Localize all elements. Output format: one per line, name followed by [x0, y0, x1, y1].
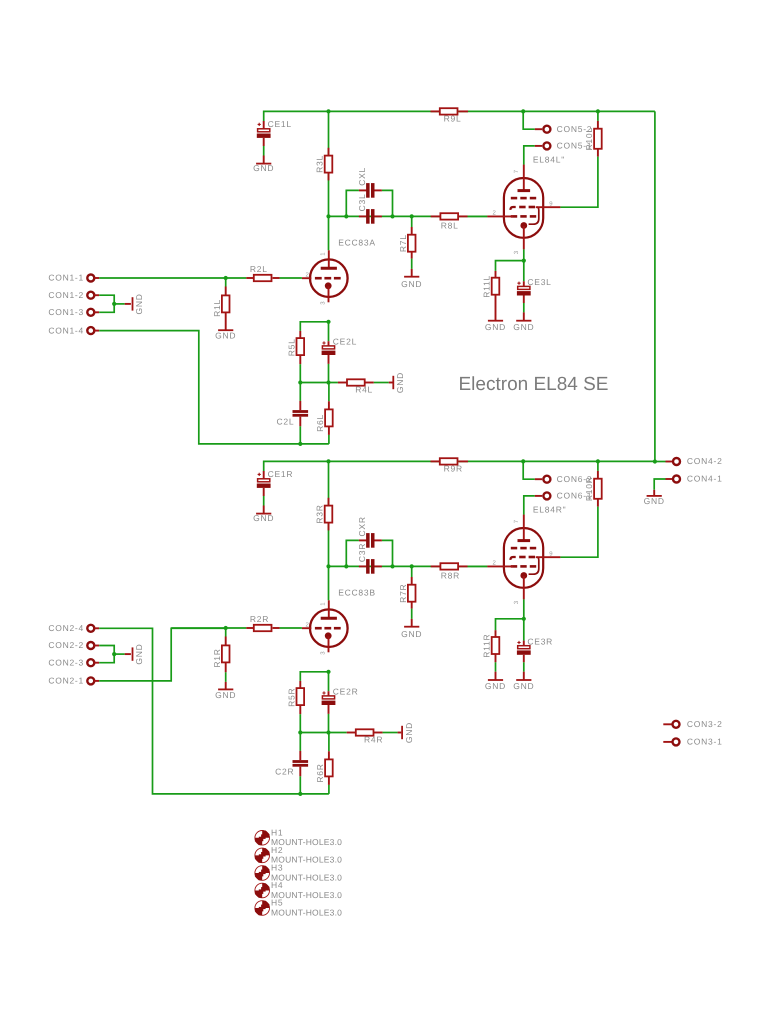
connector CON5-1	[543, 141, 592, 151]
svg-text:CE3L: CE3L	[527, 277, 551, 287]
connector CON2-1	[48, 676, 99, 686]
svg-text:R4L: R4L	[355, 385, 373, 395]
resistor R2L	[246, 264, 279, 281]
resistor R5R	[286, 681, 304, 733]
junction cap-loop-left L	[344, 214, 348, 218]
svg-text:2: 2	[492, 209, 496, 216]
junction cathode R	[326, 670, 330, 674]
connector CON6-1	[543, 491, 592, 501]
triode ECC83A	[302, 238, 376, 303]
svg-text:R4R: R4R	[364, 735, 383, 745]
svg-text:R1R: R1R	[212, 648, 222, 667]
svg-text:2: 2	[305, 272, 309, 279]
capacitor CE2L	[322, 322, 357, 383]
svg-text:R3R: R3R	[314, 504, 324, 523]
svg-text:2: 2	[305, 622, 309, 629]
wire CON6-2	[523, 461, 542, 479]
svg-text:CE1R: CE1R	[268, 469, 294, 479]
resistor R4R	[347, 729, 398, 744]
capacitor CE2R	[322, 672, 359, 733]
connector CON4-2	[666, 456, 723, 466]
svg-text:GND: GND	[401, 279, 422, 289]
svg-text:CON4-1: CON4-1	[687, 474, 723, 484]
ground CE3R-GND	[513, 680, 534, 691]
junction CON1-gnd	[112, 302, 116, 306]
svg-text:CE3R: CE3R	[527, 636, 553, 646]
junction R5-row L	[298, 380, 302, 384]
wire grid row R	[171, 627, 302, 629]
wire CXR loop	[346, 540, 392, 566]
svg-text:GND: GND	[253, 163, 274, 173]
svg-text:GND: GND	[401, 629, 422, 639]
svg-text:R8R: R8R	[441, 571, 460, 581]
pin 2 EL84L	[492, 209, 496, 216]
svg-text:GND: GND	[485, 322, 506, 332]
resistor R1R	[212, 628, 230, 689]
connector CON5-2	[543, 124, 592, 134]
wire pin9 R	[560, 507, 598, 558]
svg-text:GND: GND	[513, 322, 534, 332]
junction cap-loop-right R	[390, 564, 394, 568]
wire CON2-1 to grid	[99, 628, 226, 681]
wire cathode bottom row R	[300, 732, 346, 734]
capacitor CE3L	[517, 261, 552, 321]
wire CON2-4 to cathode bottom	[99, 628, 329, 794]
svg-text:7: 7	[513, 519, 520, 523]
svg-text:CON4-2: CON4-2	[687, 456, 723, 466]
wire anode column L	[328, 111, 330, 250]
wire CXL loop	[346, 190, 392, 216]
svg-text:GND: GND	[215, 331, 236, 341]
resistor R2R	[246, 614, 279, 631]
ground CE1R-GND	[253, 513, 274, 523]
wire cathode branch L	[300, 322, 328, 331]
svg-text:7: 7	[513, 169, 520, 173]
ground R4R-GND	[398, 722, 414, 743]
svg-text:3: 3	[513, 250, 520, 254]
wire CON5-2	[523, 111, 542, 129]
junction rail-R3R	[326, 459, 330, 463]
resistor R3L	[314, 148, 332, 181]
svg-text:R6L: R6L	[315, 414, 325, 432]
capacitor CE1R	[257, 469, 293, 514]
svg-text:C2L: C2L	[277, 417, 295, 427]
connector CON2-3	[48, 657, 99, 667]
resistor R9L	[431, 108, 469, 123]
svg-text:H5: H5	[271, 898, 283, 908]
mount hole H1	[255, 828, 342, 848]
connector CON1-1	[48, 273, 99, 283]
svg-text:R5R: R5R	[286, 688, 296, 707]
svg-text:R9L: R9L	[444, 114, 462, 124]
wire CON1-2/3 gnd	[99, 295, 125, 312]
svg-text:R10L: R10L	[584, 127, 594, 150]
wire grid row L	[99, 277, 302, 279]
wire B+ rail R	[264, 461, 655, 471]
pentode EL84R	[487, 504, 566, 599]
junction pentode-cathode R	[522, 617, 526, 621]
ground CON2-GND	[125, 644, 144, 665]
resistor R9R	[431, 458, 469, 473]
resistor R10R	[584, 461, 602, 506]
pin 3 EL84L	[513, 250, 520, 254]
ground CON4-GND	[644, 490, 665, 506]
svg-text:R3L: R3L	[314, 155, 324, 173]
ground R7R-GND	[401, 627, 422, 640]
connector CON3-2	[663, 719, 722, 729]
connector CON2-2	[48, 640, 99, 650]
junction anode-R3R	[326, 564, 330, 568]
connector CON1-4	[48, 325, 99, 335]
svg-text:R2R: R2R	[250, 614, 269, 624]
pin 1 ECC83A	[320, 252, 327, 256]
svg-text:R10R: R10R	[584, 476, 594, 501]
junction cap-loop-right L	[390, 214, 394, 218]
svg-text:9: 9	[549, 200, 553, 207]
wire cathode bottom row L	[300, 382, 338, 384]
svg-text:CON2-2: CON2-2	[48, 640, 84, 650]
svg-text:CXL: CXL	[357, 167, 367, 186]
junction cathode L	[326, 320, 330, 324]
capacitor CXL	[357, 167, 382, 198]
svg-text:GND: GND	[215, 690, 236, 700]
svg-text:R1L: R1L	[212, 299, 222, 317]
connector CON4-1	[666, 474, 723, 484]
svg-text:ECC83A: ECC83A	[338, 238, 376, 248]
capacitor CE3R	[517, 619, 553, 680]
svg-text:MOUNT-HOLE3.0: MOUNT-HOLE3.0	[271, 907, 342, 917]
svg-text:3: 3	[320, 651, 327, 655]
svg-text:H4: H4	[271, 880, 283, 890]
junction CON2-gnd	[112, 652, 116, 656]
junction C2L-bottom	[298, 442, 302, 446]
junction R5-row R	[298, 730, 302, 734]
svg-text:GND: GND	[644, 496, 665, 506]
resistor R8L	[431, 213, 488, 230]
connector CON3-1	[663, 737, 722, 747]
ground R1R-GND	[215, 689, 236, 699]
triode ECC83B	[302, 588, 376, 653]
junction rail-R3L	[326, 109, 330, 113]
junction rail-CON4	[653, 459, 657, 463]
resistor R7L	[398, 216, 416, 276]
capacitor C2L	[277, 383, 309, 444]
svg-text:H2: H2	[271, 845, 283, 855]
resistor R8R	[431, 563, 488, 580]
capacitor C2R	[275, 733, 308, 794]
pin 3 ECC83B	[320, 651, 327, 655]
wire right rail	[654, 111, 656, 461]
svg-text:GND: GND	[253, 513, 274, 523]
capacitor C3L	[357, 194, 382, 224]
mount hole H5	[255, 898, 342, 918]
connector CON6-2	[543, 474, 592, 484]
connector CON1-2	[48, 290, 99, 300]
resistor R6L	[315, 383, 333, 444]
svg-text:CE2L: CE2L	[333, 337, 357, 347]
pin 7 EL84L	[513, 169, 520, 173]
mount hole H3	[255, 863, 342, 883]
svg-text:CON1-2: CON1-2	[48, 290, 84, 300]
wire rail to CON4-2	[655, 461, 666, 463]
svg-text:C3L: C3L	[357, 194, 367, 212]
ground CON1-GND	[125, 293, 144, 314]
mount hole H2	[255, 845, 342, 865]
wire anode row L	[329, 215, 488, 217]
svg-text:GND: GND	[134, 644, 144, 665]
svg-text:CON3-2: CON3-2	[687, 719, 723, 729]
junction anode-R3L	[326, 214, 330, 218]
junction cap-loop-left R	[344, 564, 348, 568]
svg-text:CON3-1: CON3-1	[687, 737, 723, 747]
junction rail-CON6	[521, 459, 525, 463]
resistor R3R	[314, 498, 332, 531]
junction C2R-bottom	[298, 792, 302, 796]
svg-text:R9R: R9R	[444, 464, 463, 474]
svg-text:H3: H3	[271, 863, 283, 873]
svg-text:2: 2	[492, 559, 496, 566]
ground R1L-GND	[215, 330, 236, 340]
junction anode-R7R	[410, 564, 414, 568]
wire pin9 L	[560, 157, 598, 208]
pin 7 EL84R	[513, 519, 520, 523]
svg-text:1: 1	[320, 252, 327, 256]
svg-text:3: 3	[320, 301, 327, 305]
resistor R11L	[482, 261, 524, 321]
pin 2 ECC83A	[305, 272, 309, 279]
connector CON1-3	[48, 307, 99, 317]
wire CON4-1 gnd	[654, 479, 665, 490]
resistor R4L	[338, 379, 389, 394]
ground R11R-GND	[485, 680, 506, 691]
svg-text:EL84L": EL84L"	[533, 154, 565, 164]
pin 2 ECC83B	[305, 622, 309, 629]
svg-text:R7R: R7R	[398, 584, 408, 603]
svg-text:CE1L: CE1L	[268, 119, 292, 129]
resistor R1L	[212, 278, 230, 330]
svg-text:GND: GND	[404, 722, 414, 743]
wire CON5-1	[524, 146, 542, 165]
svg-text:CON2-1: CON2-1	[48, 676, 84, 686]
junction grid-R1L	[224, 276, 228, 280]
svg-text:C3R: C3R	[357, 543, 367, 562]
svg-text:Electron EL84 SE: Electron EL84 SE	[459, 374, 609, 395]
resistor R7R	[398, 566, 416, 626]
capacitor CE1L	[257, 119, 292, 164]
wire anode row R	[329, 565, 488, 567]
junction grid-R1R	[224, 626, 228, 630]
svg-text:CON2-3: CON2-3	[48, 657, 84, 667]
resistor R5L	[286, 331, 304, 383]
ground CE1L-GND	[253, 163, 274, 173]
pin 9 EL84R	[549, 550, 553, 557]
ground CE3L-GND	[513, 321, 534, 332]
svg-text:R11L: R11L	[482, 275, 492, 298]
wire CON6-1	[524, 496, 542, 515]
svg-text:EL84R": EL84R"	[533, 504, 567, 514]
resistor R6R	[315, 733, 333, 794]
svg-text:CXR: CXR	[357, 516, 367, 536]
pin 3 ECC83A	[320, 301, 327, 305]
junction CE2-row R	[326, 730, 330, 734]
svg-text:R11R: R11R	[482, 634, 492, 658]
wire CON2-2/3 gnd	[99, 646, 125, 663]
ground R4L-GND	[389, 372, 405, 393]
svg-text:R2L: R2L	[250, 264, 268, 274]
wire pentode cathode R	[523, 599, 525, 618]
svg-text:GND: GND	[134, 293, 144, 314]
pin 9 EL84L	[549, 200, 553, 207]
svg-text:R6R: R6R	[315, 763, 325, 782]
svg-text:R7L: R7L	[398, 234, 408, 252]
pin 1 ECC83B	[320, 602, 327, 606]
junction rail-R10R	[596, 459, 600, 463]
pentode EL84L	[487, 154, 565, 249]
title text	[459, 374, 609, 395]
pin 3 EL84R	[513, 600, 520, 604]
wire anode column R	[328, 461, 330, 600]
wire cathode branch R	[300, 672, 328, 681]
svg-text:C2R: C2R	[275, 767, 294, 777]
wire B+ rail L	[264, 111, 655, 121]
svg-text:R8L: R8L	[441, 221, 459, 231]
svg-text:1: 1	[320, 602, 327, 606]
resistor R11R	[482, 619, 524, 680]
junction anode-R7L	[410, 214, 414, 218]
junction CE2-row L	[326, 380, 330, 384]
svg-text:R5L: R5L	[286, 338, 296, 356]
resistor R10L	[584, 111, 602, 156]
junction rail-R10L	[596, 109, 600, 113]
svg-text:CON1-3: CON1-3	[48, 307, 84, 317]
svg-text:GND: GND	[513, 681, 534, 691]
svg-text:ECC83B: ECC83B	[338, 588, 376, 598]
junction rail-CON5	[521, 109, 525, 113]
svg-text:GND: GND	[395, 372, 405, 393]
wire CON1-4 to cathode bottom	[99, 331, 329, 444]
svg-text:CON1-4: CON1-4	[48, 325, 84, 335]
svg-text:3: 3	[513, 600, 520, 604]
svg-text:9: 9	[549, 550, 553, 557]
svg-text:CE2R: CE2R	[333, 687, 359, 697]
svg-text:GND: GND	[485, 681, 506, 691]
capacitor CXR	[357, 516, 382, 547]
pin 2 EL84R	[492, 559, 496, 566]
ground R11L-GND	[485, 321, 506, 332]
svg-text:CON2-4: CON2-4	[48, 623, 84, 633]
wire pentode cathode L	[523, 249, 525, 260]
connector CON2-4	[48, 623, 99, 633]
svg-text:H1: H1	[271, 828, 283, 838]
junction pentode-cathode L	[522, 259, 526, 263]
ground R7L-GND	[401, 277, 422, 290]
capacitor C3R	[357, 543, 382, 574]
svg-text:CON1-1: CON1-1	[48, 273, 84, 283]
mount hole H4	[255, 880, 342, 900]
